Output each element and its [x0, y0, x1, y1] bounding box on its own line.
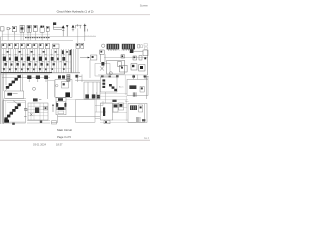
svg-text:Screen: Screen — [140, 3, 149, 7]
fitting F2 — [144, 44, 147, 50]
swash diagonal guide — [5, 75, 21, 91]
pilot bus heavy segment — [25, 37, 50, 39]
spool S2 — [15, 57, 18, 61]
pump unit P0 — [53, 22, 62, 29]
solenoid stack — [102, 79, 105, 88]
wire — [147, 50, 149, 75]
valve V18 — [119, 103, 124, 110]
step connector lines — [95, 101, 106, 119]
fitting F1 — [138, 44, 143, 48]
valve V5 — [27, 25, 31, 32]
strainer bar — [103, 107, 105, 116]
supply line — [104, 56, 148, 58]
extra bank lines — [73, 49, 78, 72]
wire — [100, 92, 127, 94]
valve V14 — [131, 64, 137, 70]
svg-text:ACC: ACC — [119, 85, 124, 88]
wire — [104, 54, 106, 62]
strainer ST1 — [133, 92, 136, 96]
valve V13 — [120, 65, 128, 72]
tick marks upper — [3, 53, 71, 55]
wire — [125, 96, 127, 121]
wire — [5, 97, 26, 99]
port block B7 — [39, 44, 44, 49]
valve V2 — [7, 27, 11, 29]
bottom lines — [27, 121, 50, 123]
lower small marks — [3, 68, 65, 70]
valve V19 — [139, 105, 143, 112]
wire — [13, 101, 17, 104]
pump P1 — [62, 25, 65, 36]
wire — [100, 99, 128, 101]
port block B1 — [2, 44, 7, 49]
strainer ST2 — [136, 117, 140, 122]
svg-text:03 01 2024: 03 01 2024 — [33, 142, 47, 146]
valve V20 — [75, 75, 81, 78]
top comp — [33, 98, 41, 101]
solenoid block SB2 — [122, 44, 135, 50]
motor MT2 — [85, 94, 89, 98]
valve box VB1 — [55, 80, 72, 98]
filter FL1 — [104, 120, 110, 123]
swash group 2 box — [3, 101, 25, 123]
valve V9 — [121, 55, 125, 58]
wire — [112, 107, 127, 109]
wire — [100, 102, 127, 104]
accumulator A1 — [100, 50, 105, 54]
manifold top line — [1, 39, 73, 41]
port block B2 — [8, 44, 13, 49]
bank end line — [70, 49, 72, 72]
motor box — [28, 103, 48, 120]
motor MT1 — [65, 92, 70, 97]
bottom big box — [75, 100, 95, 123]
node N4 — [12, 123, 15, 125]
bottom right cluster — [100, 100, 147, 124]
swash group 1 frame — [4, 73, 23, 91]
tick — [24, 115, 27, 117]
wire — [66, 99, 100, 101]
top component band — [0, 22, 147, 50]
valve V15 — [139, 65, 145, 71]
wire — [54, 81, 56, 97]
valve V4 — [20, 25, 24, 32]
intermediate spool dots — [9, 57, 59, 60]
motor MT3 — [92, 94, 96, 98]
valve V1 — [0, 27, 4, 31]
pilot line dotted — [108, 49, 126, 51]
valve V8 — [46, 26, 49, 31]
wire — [75, 79, 100, 81]
junction box JB1 — [51, 121, 56, 124]
check valve CV2 — [81, 43, 84, 48]
tick comp b — [109, 76, 111, 78]
wire — [95, 95, 127, 97]
solenoid SV1 — [130, 49, 134, 53]
left bus vertical pair — [1, 36, 2, 124]
spool end caps — [62, 50, 71, 55]
control box CB2 — [127, 79, 148, 95]
wire — [100, 54, 102, 62]
tank return light line — [52, 72, 80, 74]
port block B8 — [45, 44, 50, 49]
swash stack 2 — [4, 103, 20, 120]
cooler CL1 — [84, 82, 100, 99]
valve V17 — [113, 103, 118, 112]
solenoid SV3 — [58, 98, 63, 101]
pilot manifold line — [2, 77, 50, 79]
left stub — [24, 108, 28, 111]
port block B4 — [20, 44, 25, 49]
valve V11 — [133, 56, 137, 60]
wire — [58, 115, 100, 117]
svg-text:Iss 4: Iss 4 — [144, 137, 150, 140]
spool S1 — [3, 57, 6, 61]
spring SP1 — [58, 111, 64, 114]
tank box TK1 — [100, 103, 112, 120]
spool section vertical lines — [1, 49, 71, 72]
svg-text:18:37: 18:37 — [56, 142, 63, 146]
tick comp a — [101, 75, 104, 77]
solenoid block SB3 — [130, 105, 137, 110]
port block B6 — [33, 44, 38, 49]
swash diagonal guide 2 — [4, 104, 20, 120]
wire — [104, 92, 106, 103]
wire — [84, 32, 86, 41]
motor valve X — [30, 107, 39, 115]
right bank group — [98, 49, 148, 75]
side tab left — [56, 103, 58, 107]
wire — [81, 75, 83, 83]
wire — [112, 111, 127, 113]
connector wires top band — [2, 30, 48, 41]
svg-text:Main Circuit: Main Circuit — [57, 128, 72, 132]
node N5 — [144, 75, 146, 77]
pilot bus line — [1, 35, 96, 37]
pump P3 — [72, 25, 75, 32]
wire — [133, 75, 135, 80]
valve box VB2 — [95, 64, 110, 77]
side tab right — [64, 103, 66, 107]
step valves — [109, 84, 117, 91]
valve core VC1 — [57, 102, 66, 110]
gauge G4 — [56, 84, 58, 86]
solenoid SV4 — [112, 100, 116, 102]
top solenoid a — [58, 75, 61, 78]
port block B9 — [52, 44, 59, 48]
tick marks — [144, 76, 149, 78]
footer rule — [0, 139, 150, 141]
relief valve RV1 — [76, 24, 82, 28]
gauge G3 — [33, 87, 36, 90]
top solenoid b — [62, 75, 65, 78]
wire — [76, 75, 78, 83]
wire — [85, 35, 96, 37]
node N1 — [144, 57, 146, 59]
spool S6 — [62, 57, 65, 61]
gauge G1 — [102, 44, 105, 47]
wire — [77, 28, 79, 43]
arrow feed — [80, 57, 90, 59]
filter screen FS1 — [67, 75, 70, 82]
spool S5 — [51, 57, 54, 61]
spool S3 — [27, 57, 30, 61]
center valve box — [55, 75, 72, 98]
motor MT5 — [4, 120, 9, 123]
valve V10 — [143, 50, 148, 56]
valve V6 — [33, 25, 37, 31]
wire — [133, 50, 143, 52]
pump symbol PM3 — [44, 75, 48, 82]
tank return heavy line — [0, 72, 52, 74]
travel motor block TM1 — [24, 98, 50, 123]
check valve CV1 — [76, 43, 80, 48]
solenoid block SB1 — [107, 44, 120, 50]
port block B3 — [14, 44, 19, 49]
drain line — [2, 33, 50, 35]
swash stack 1 — [6, 75, 21, 89]
valve V16 — [140, 86, 144, 92]
svg-text:Page 3 of 5: Page 3 of 5 — [57, 135, 71, 139]
regulator box R1 — [5, 91, 24, 98]
tick — [24, 108, 27, 110]
valve V12 — [139, 56, 142, 60]
wire — [112, 119, 128, 121]
wire — [47, 79, 49, 99]
solenoid legs — [109, 49, 134, 50]
wire — [51, 121, 57, 123]
bottom node — [40, 120, 42, 123]
valve V7 — [40, 26, 44, 33]
spool S4 — [39, 57, 42, 61]
wire — [98, 74, 148, 76]
control box CB3 — [128, 103, 147, 122]
spool rails — [1, 55, 71, 69]
control box CB1 — [100, 77, 117, 92]
wire — [57, 115, 59, 123]
pump symbol PM2 — [36, 75, 40, 82]
inner lines — [28, 103, 48, 120]
valve V3 — [12, 26, 16, 34]
pilot valve small — [44, 106, 47, 110]
wire — [100, 122, 145, 124]
wire — [145, 75, 147, 99]
svg-text:Circuit Main Hydraulic (1 of 2: Circuit Main Hydraulic (1 of 2) — [57, 10, 94, 14]
tick comp c — [116, 75, 119, 77]
cooler box group — [75, 75, 100, 100]
solenoid SV0 — [84, 24, 88, 32]
right mid boxes — [100, 75, 149, 104]
inner valve dot — [63, 83, 65, 85]
spring marks row — [7, 51, 68, 53]
solenoid SV2 — [129, 85, 136, 89]
pump symbol PM1 — [27, 75, 31, 82]
wire — [95, 92, 97, 112]
wire — [144, 104, 146, 122]
inner valve VB1a — [61, 82, 68, 88]
wire — [137, 75, 139, 80]
tick marks lower — [6, 61, 68, 63]
header rule — [0, 14, 150, 16]
manifold M1 — [100, 60, 125, 74]
motor MT4 — [97, 95, 100, 99]
arrow AR1 — [52, 104, 54, 112]
actuator marks row — [4, 63, 66, 66]
pump housing PH1 — [56, 98, 66, 115]
spool bar — [58, 107, 65, 110]
pump P2 — [66, 25, 68, 36]
wire — [124, 75, 126, 95]
inner frame lines — [4, 101, 25, 123]
port block B5 — [27, 44, 32, 49]
center bottom pump group — [51, 98, 100, 124]
wire — [48, 80, 55, 82]
node N2 — [132, 75, 135, 77]
node N3 — [142, 119, 145, 121]
wire — [3, 98, 5, 124]
return rail line — [0, 73, 50, 75]
gauge G2 — [109, 72, 112, 75]
valve V21 — [91, 55, 97, 60]
wire — [89, 60, 91, 78]
